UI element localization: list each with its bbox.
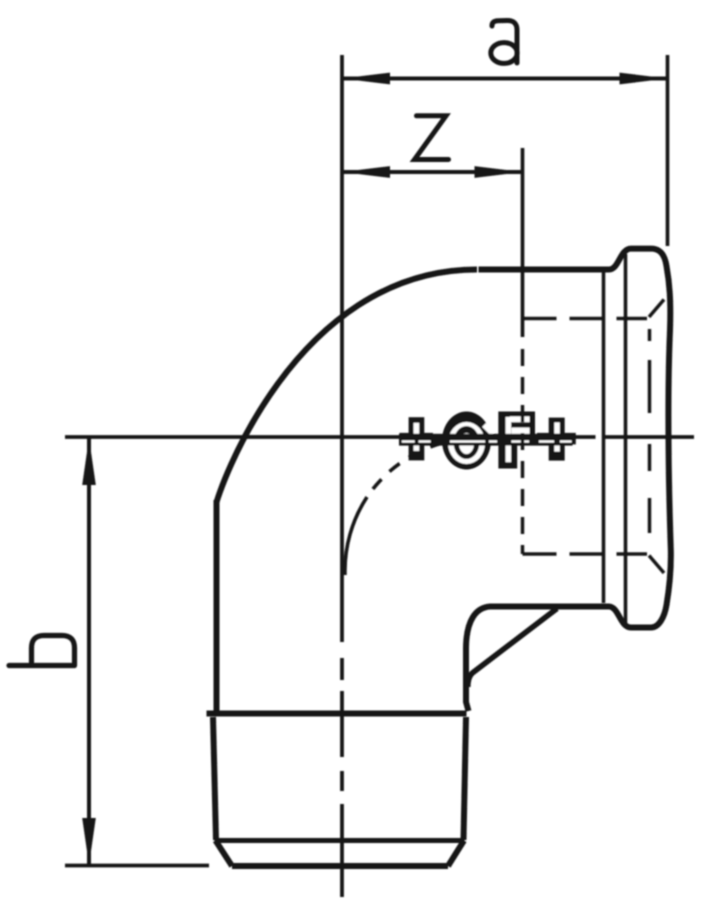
vertical centerline (340, 55, 344, 897)
inner bore arc dashed part (367, 438, 480, 497)
left outer wall (214, 500, 220, 714)
thread end hidden vertical at Z plane (521, 349, 525, 554)
male thread shoulder (207, 711, 467, 717)
extension line a right (666, 55, 670, 246)
mouth chamfer bottom (649, 556, 664, 574)
outer contour: top line, bead, end face, bottom of socket, crotch fillet, branch wall (466, 249, 671, 711)
mouth chamfer top (649, 300, 664, 318)
outer arc of elbow (217, 270, 478, 504)
inner bore arc solid part (345, 497, 367, 575)
logo plus left (400, 417, 433, 460)
thread hidden line bottom (523, 552, 648, 556)
male thread bottom face (232, 863, 448, 869)
bead edge line left (602, 272, 606, 603)
arrowhead b top (82, 438, 96, 485)
male thread chamfer right (448, 841, 464, 867)
arrowhead Z left (342, 166, 390, 178)
arrowhead Z right (475, 166, 523, 178)
label a (492, 20, 517, 63)
arrowhead b bottom (82, 818, 96, 865)
crotch rib diagonal (468, 609, 557, 688)
thread hidden line end (vertical dashed) (648, 329, 652, 533)
logo bar white inline slits (402, 440, 572, 442)
dimension line a (342, 77, 668, 81)
thread hidden line top (523, 317, 648, 321)
label Z (415, 116, 449, 160)
logo letter G (442, 412, 493, 470)
extension line b bottom (65, 864, 209, 868)
horizontal centerline (65, 435, 694, 439)
label b (rotated) (9, 663, 75, 668)
bead edge line right (624, 254, 628, 624)
male thread chamfer left (216, 841, 233, 867)
logo plus right (537, 418, 576, 461)
male thread left edge (213, 717, 216, 840)
dimension line b (87, 437, 91, 866)
logo letter F (498, 412, 535, 469)
male thread runout line (215, 838, 465, 843)
arrowhead a right (620, 73, 668, 85)
dimension line Z (342, 170, 523, 174)
male thread right edge (464, 717, 467, 840)
arrowhead a left (342, 73, 390, 85)
logo heavy center bar (399, 434, 573, 446)
extension line Z right (521, 148, 525, 337)
